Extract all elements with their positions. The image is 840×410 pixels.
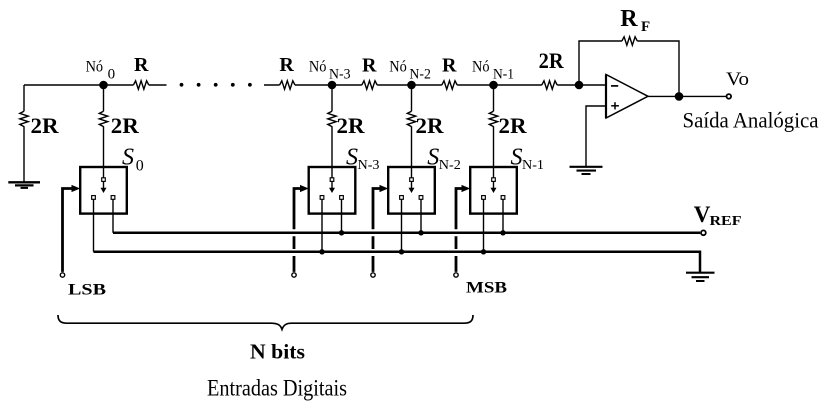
wire SN-3 right terminal drop <box>341 199 343 233</box>
svg-text:S: S <box>511 145 523 171</box>
svg-text:0: 0 <box>136 158 144 175</box>
resistor R4 zigzag <box>442 81 457 89</box>
ground bus ground symbol <box>686 273 715 281</box>
node output junction dot <box>675 92 684 101</box>
node NóN-1 dot <box>489 81 498 90</box>
terminal VREF circle <box>701 230 706 235</box>
wire op-amp output <box>648 95 727 97</box>
svg-text:R: R <box>442 55 457 77</box>
wire left 2R branch <box>23 85 25 182</box>
node NóN-2 dot <box>407 81 416 90</box>
switch SN-1 internals <box>482 178 505 200</box>
svg-text:S: S <box>427 145 439 171</box>
node VREF bus junction SN-2 <box>418 230 423 235</box>
svg-text:2R: 2R <box>499 113 528 138</box>
svg-text:R: R <box>134 54 149 76</box>
svg-text:2R: 2R <box>416 113 445 138</box>
svg-text:R: R <box>620 6 638 32</box>
resistor 2R left zigzag <box>20 111 28 126</box>
svg-text:N-3: N-3 <box>329 67 351 83</box>
svg-text:2R: 2R <box>337 113 366 138</box>
MSB input line <box>455 187 462 272</box>
node ground bus junction SN-3 <box>319 249 324 254</box>
resistor 2R node0 zigzag <box>99 111 107 126</box>
terminal MSB input circle <box>454 273 458 277</box>
terminal SN-2 input circle <box>371 273 375 277</box>
wire node0 2R branch <box>103 85 105 178</box>
label Nó0 <box>86 59 116 83</box>
node ellipsis dots <box>180 83 252 87</box>
switch SN-3 internals <box>320 178 343 200</box>
SN-2 input line <box>372 187 380 272</box>
svg-text:V: V <box>694 202 711 227</box>
wire SN-2 left terminal drop <box>401 199 403 252</box>
label SN-3 <box>346 145 380 173</box>
wire SN-3 left terminal drop <box>321 199 323 252</box>
resistor 2R nodeN-3 zigzag <box>328 111 336 126</box>
label NóN-1 <box>472 59 514 83</box>
brace N bits <box>58 315 473 329</box>
svg-text:Nó: Nó <box>472 59 490 76</box>
wire ground bus <box>94 252 701 272</box>
wire top rail left segment <box>24 84 167 86</box>
svg-text:R: R <box>279 54 294 76</box>
svg-text:Entradas Digitais: Entradas Digitais <box>207 376 347 401</box>
label VREF <box>694 202 742 229</box>
wire nodeN-1 2R branch <box>493 85 495 178</box>
wire op-amp plus input to ground <box>586 106 606 166</box>
wire SN-1 right terminal drop <box>502 199 504 233</box>
svg-text:N-1: N-1 <box>493 67 514 83</box>
node Nó0 dot <box>99 81 108 90</box>
svg-text:2R: 2R <box>31 113 60 138</box>
switch S0 box <box>80 167 127 214</box>
node op-amp input junction dot <box>575 81 584 90</box>
svg-text:N-1: N-1 <box>522 158 544 173</box>
svg-text:2R: 2R <box>111 113 140 138</box>
svg-text:0: 0 <box>108 67 116 83</box>
svg-text:Saída Analógica: Saída Analógica <box>683 108 819 133</box>
svg-text:2R: 2R <box>539 48 565 73</box>
svg-text:S: S <box>346 145 358 171</box>
svg-text:R: R <box>362 55 377 77</box>
switch SN-3 box <box>309 167 356 214</box>
node NóN-3 dot <box>328 81 337 90</box>
wire S0 right terminal drop <box>112 199 114 233</box>
svg-text:Vo: Vo <box>726 69 749 90</box>
node ground bus junction SN-2 <box>399 249 404 254</box>
feedback RF loop wires <box>579 41 679 96</box>
switch SN-2 box <box>388 167 435 214</box>
svg-text:MSB: MSB <box>466 280 507 297</box>
wire top rail right segment <box>264 84 606 86</box>
wire nodeN-3 2R branch <box>331 85 333 178</box>
label NóN-3 <box>309 59 351 83</box>
ground op-amp <box>570 167 603 174</box>
label SN-2 <box>427 145 461 173</box>
op-amp plus sign <box>611 102 619 109</box>
resistor 2R nodeN-1 zigzag <box>489 111 497 126</box>
svg-text:S: S <box>122 145 134 171</box>
wire VREF bus <box>113 232 700 235</box>
terminal Vo circle <box>727 94 732 99</box>
label SN-1 <box>511 145 545 173</box>
switch SN-2 internals <box>400 178 423 200</box>
LSB input line <box>61 187 72 272</box>
node ground bus junction SN-1 <box>481 249 486 254</box>
svg-text:LSB: LSB <box>68 282 106 299</box>
resistor R2 zigzag <box>280 81 295 89</box>
wire SN-2 right terminal drop <box>420 199 422 233</box>
svg-text:F: F <box>641 19 650 35</box>
resistor R1 zigzag <box>133 81 148 89</box>
switch SN-1 box <box>470 167 517 214</box>
terminal SN-3 input circle <box>292 273 296 277</box>
resistor RF zigzag <box>622 37 637 45</box>
svg-text:N-2: N-2 <box>439 158 461 173</box>
resistor 2R nodeN-2 zigzag <box>407 111 415 126</box>
wire nodeN-2 2R branch <box>411 85 413 178</box>
wire SN-1 left terminal drop <box>483 199 485 252</box>
label S0 <box>122 145 144 175</box>
svg-text:N-2: N-2 <box>409 67 431 83</box>
resistor 2R series zigzag <box>542 81 557 89</box>
terminal LSB circle <box>60 273 64 277</box>
svg-text:N-3: N-3 <box>358 158 380 173</box>
svg-text:REF: REF <box>710 214 742 229</box>
svg-text:N bits: N bits <box>250 340 305 364</box>
svg-text:Nó: Nó <box>309 59 327 76</box>
resistor R3 zigzag <box>362 81 377 89</box>
op-amp U1 triangle <box>606 75 648 119</box>
node VREF bus junction SN-3 <box>339 230 344 235</box>
node VREF bus junction SN-1 <box>500 230 505 235</box>
SN-3 input line <box>293 187 301 272</box>
op-amp minus sign <box>611 85 618 87</box>
label NóN-2 <box>389 59 431 83</box>
svg-text:Nó: Nó <box>389 59 407 76</box>
label RF <box>620 6 650 35</box>
ground left <box>8 182 40 188</box>
switch S0 internals <box>92 178 115 200</box>
svg-text:Nó: Nó <box>86 59 104 76</box>
wire S0 left terminal drop <box>93 199 95 252</box>
